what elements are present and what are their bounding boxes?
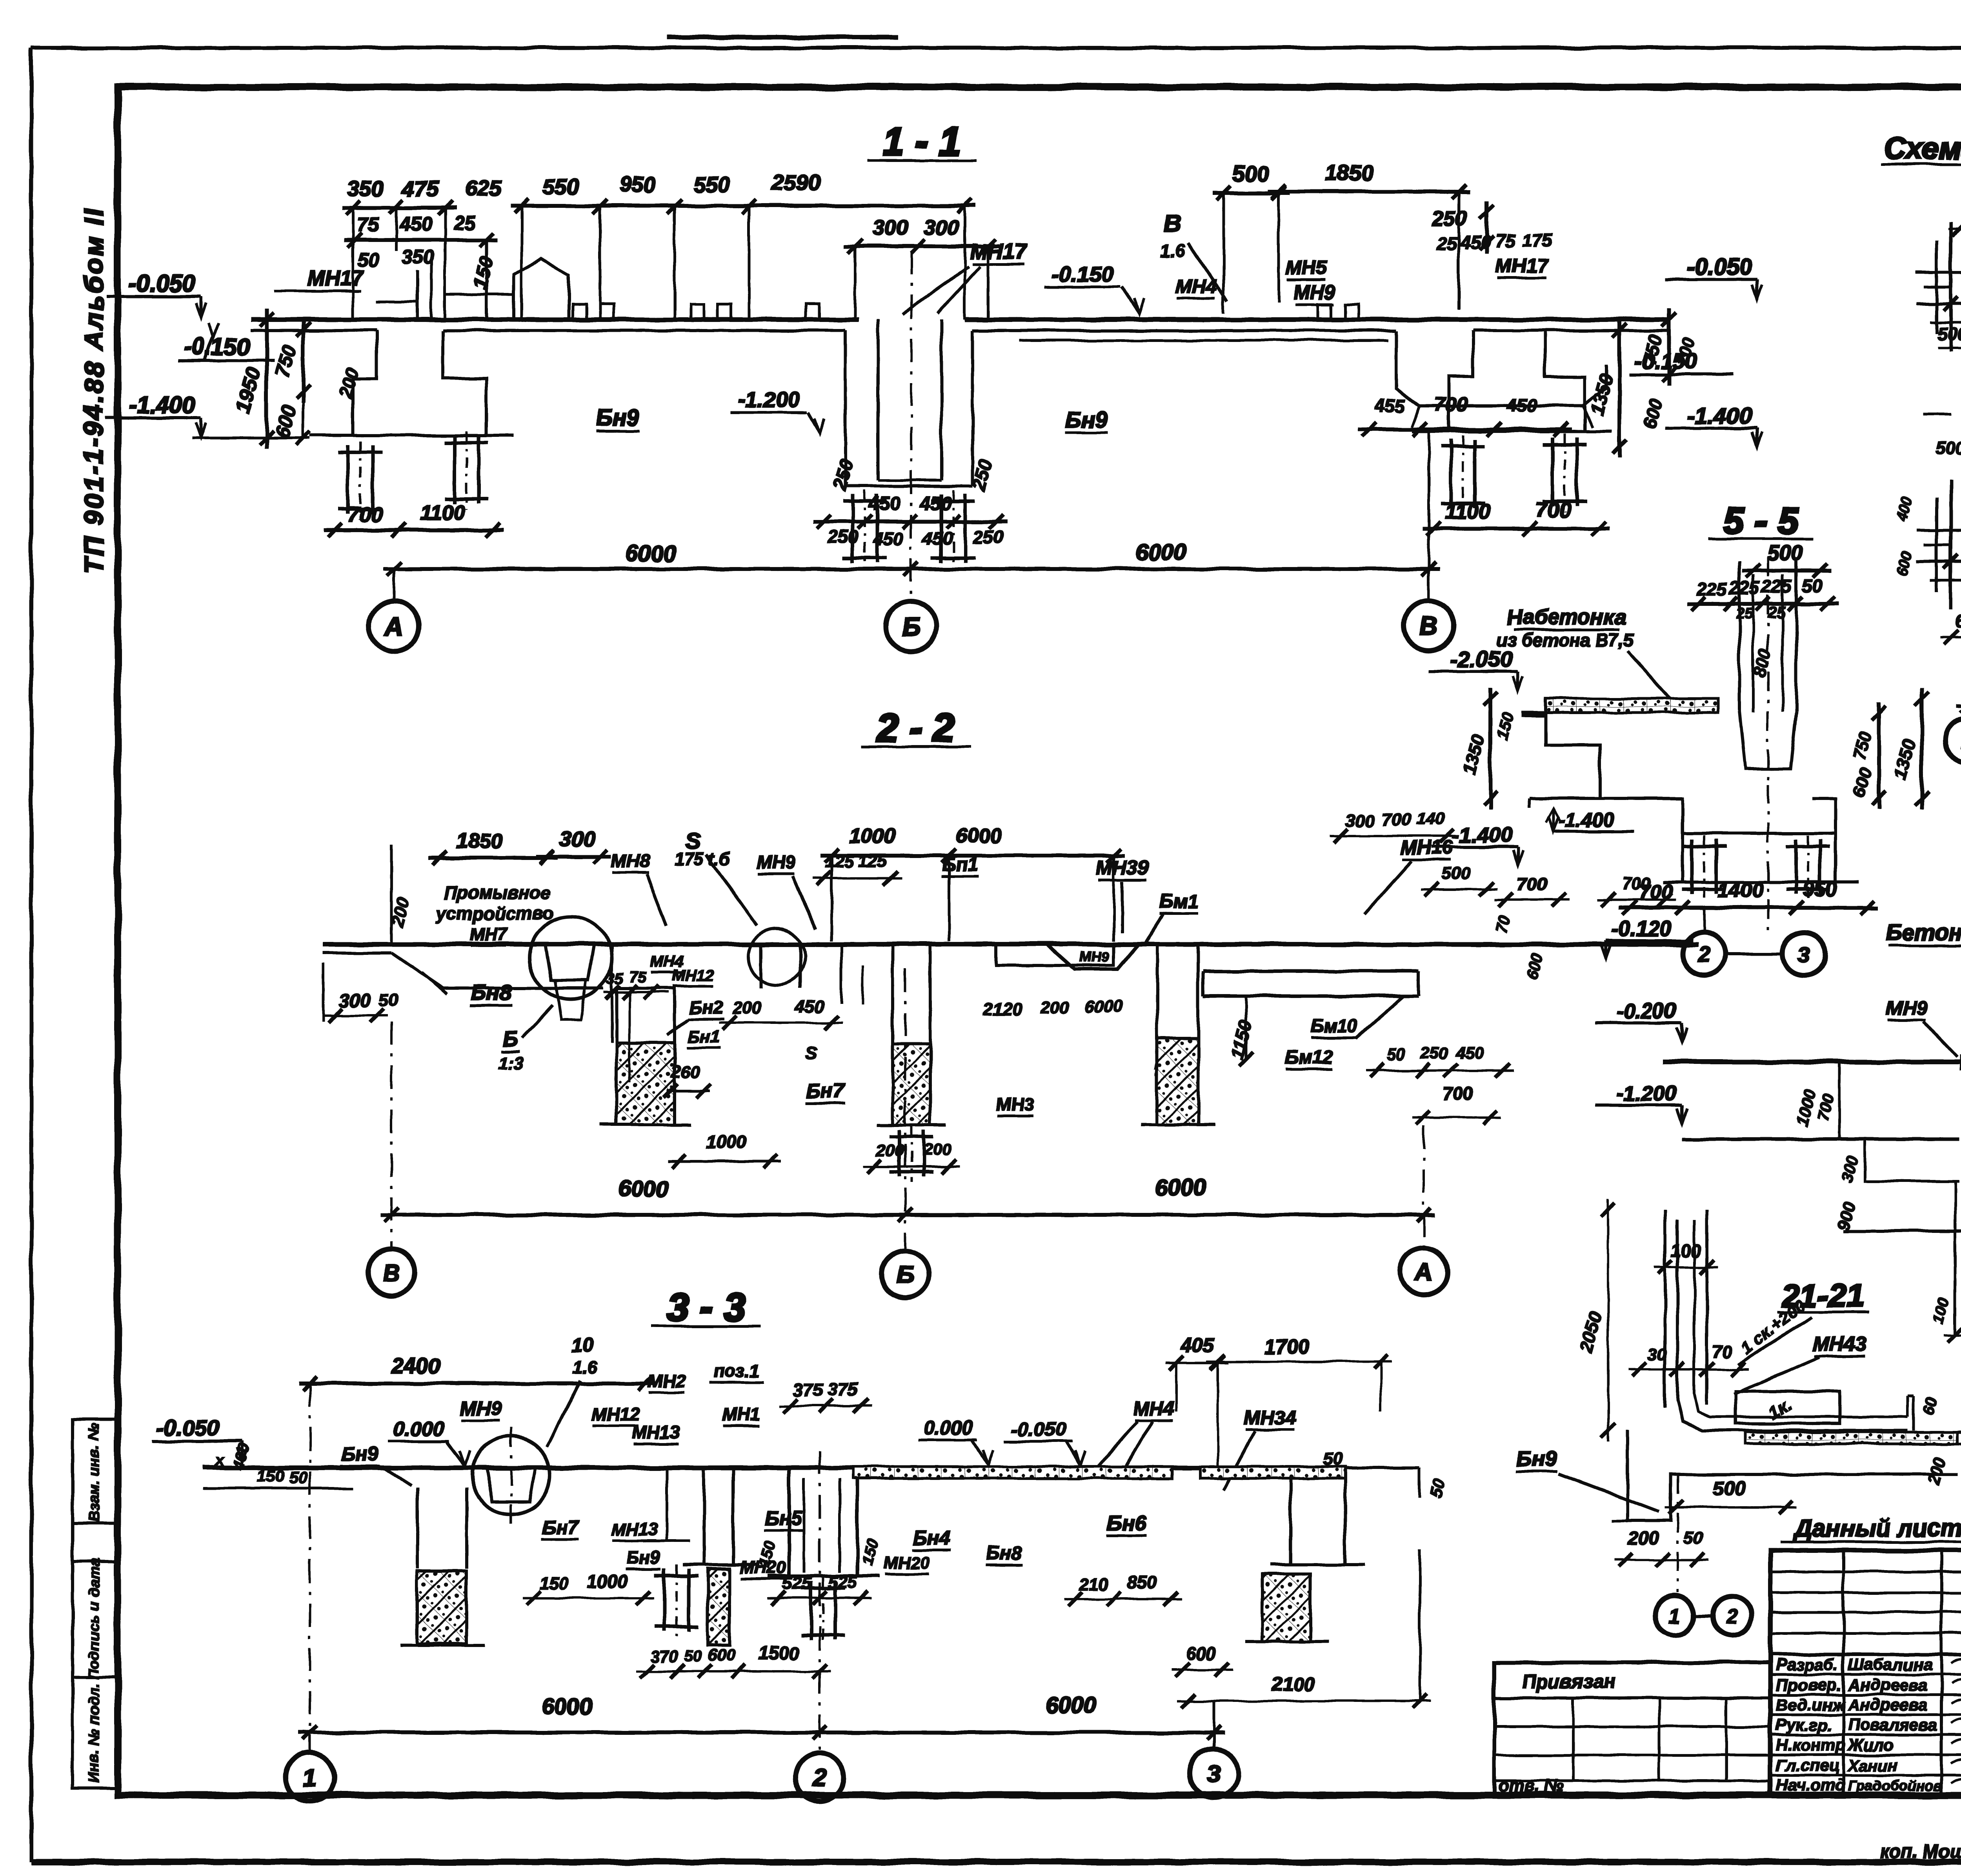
svg-text:6000: 6000 [541,1694,592,1720]
svg-text:В: В [383,1260,400,1287]
svg-text:В: В [1164,210,1181,236]
svg-text:-1.200: -1.200 [738,387,800,412]
svg-text:Бм1: Бм1 [1159,891,1198,913]
svg-text:450: 450 [873,529,904,549]
svg-text:2590: 2590 [771,170,821,195]
svg-text:1400: 1400 [1718,879,1763,902]
svg-text:Вед.инж: Вед.инж [1776,1696,1845,1714]
svg-text:-1.400: -1.400 [129,392,195,418]
svg-text:Рук.гр.: Рук.гр. [1776,1716,1832,1734]
svg-text:Взам. инв. №: Взам. инв. № [86,1423,102,1522]
svg-text:устройство: устройство [436,903,553,923]
svg-text:МН12: МН12 [592,1404,640,1424]
svg-text:Бн7: Бн7 [542,1516,579,1538]
svg-text:МН8: МН8 [611,851,651,872]
svg-text:1500: 1500 [759,1643,799,1663]
svg-text:МН5: МН5 [1285,257,1327,279]
svg-text:поз.1: поз.1 [713,1361,760,1381]
svg-text:МН13: МН13 [632,1422,680,1442]
svg-text:300: 300 [560,827,595,851]
svg-text:450: 450 [919,493,951,514]
svg-text:Градобойнов: Градобойнов [1848,1778,1942,1794]
svg-text:125: 125 [825,852,854,871]
svg-text:Бн2: Бн2 [689,997,723,1018]
svg-text:Бн8: Бн8 [471,980,512,1005]
svg-text:Бетон В7,5: Бетон В7,5 [1886,920,1961,945]
svg-text:МН4: МН4 [1133,1397,1175,1419]
svg-text:МН3: МН3 [996,1094,1034,1114]
svg-text:-0.050: -0.050 [1687,254,1752,280]
svg-text:225: 225 [1729,578,1760,598]
svg-text:-0.050: -0.050 [1011,1418,1066,1440]
svg-text:МН17: МН17 [1495,255,1549,277]
svg-text:-0.050: -0.050 [129,270,195,296]
svg-text:450: 450 [399,213,432,235]
svg-text:6000: 6000 [956,824,1001,847]
svg-text:25: 25 [1437,234,1458,254]
svg-text:475: 475 [402,176,439,201]
svg-text:140: 140 [1416,809,1445,828]
svg-text:Привязан: Привязан [1522,1671,1616,1692]
svg-text:150: 150 [539,1574,568,1593]
svg-text:А: А [1414,1259,1433,1286]
svg-text:S: S [686,829,701,854]
svg-text:200: 200 [1040,998,1070,1018]
svg-text:200: 200 [732,998,762,1018]
svg-text:125: 125 [858,851,887,871]
svg-text:Бн9: Бн9 [597,405,639,431]
svg-text:550: 550 [693,172,730,197]
svg-text:1000: 1000 [850,825,895,848]
svg-text:Бн4: Бн4 [913,1527,950,1549]
svg-text:550: 550 [542,174,579,199]
svg-text:Н.контр: Н.контр [1776,1736,1845,1754]
svg-text:600: 600 [1186,1643,1216,1663]
svg-text:300: 300 [339,991,371,1011]
svg-text:1: 1 [303,1764,317,1791]
svg-text:225: 225 [1697,579,1728,599]
svg-text:2400: 2400 [391,1353,440,1378]
svg-text:МН9: МН9 [1886,997,1928,1019]
svg-text:МН1: МН1 [722,1404,760,1424]
svg-text:Схема расположения сваиного: Схема расположения сваиного поля [1884,131,1961,165]
svg-text:50: 50 [1684,1528,1703,1547]
svg-text:Нач.отд: Нач.отд [1776,1776,1845,1794]
svg-text:250: 250 [973,527,1004,547]
svg-text:70: 70 [1712,1342,1732,1362]
svg-text:375: 375 [828,1379,858,1399]
svg-text:МН43: МН43 [1812,1333,1867,1356]
svg-text:6000: 6000 [1155,1175,1206,1200]
svg-text:-0.120: -0.120 [1612,917,1672,940]
svg-text:200: 200 [876,1141,904,1160]
svg-text:МН7: МН7 [469,924,508,944]
svg-text:200: 200 [923,1140,951,1158]
svg-text:850: 850 [1127,1572,1157,1593]
svg-text:Набетонка: Набетонка [1507,605,1626,629]
svg-text:Бн5: Бн5 [765,1507,802,1529]
svg-text:200: 200 [1628,1528,1659,1548]
svg-text:-0.150: -0.150 [184,334,250,360]
svg-text:ТП 901-1-94.88 Альбом II: ТП 901-1-94.88 Альбом II [79,206,109,574]
svg-text:А: А [384,612,404,641]
svg-text:700: 700 [1517,874,1547,894]
svg-text:2120: 2120 [984,1000,1022,1019]
svg-text:МН2: МН2 [648,1371,686,1391]
svg-text:25: 25 [453,212,476,234]
svg-text:коп. Мошкова: коп. Мошкова [1880,1841,1961,1862]
svg-text:75: 75 [629,969,646,986]
svg-text:1 - 1: 1 - 1 [882,120,961,164]
svg-text:-0.050: -0.050 [157,1415,219,1440]
svg-text:175: 175 [1523,230,1553,250]
svg-text:Бн9: Бн9 [626,1547,660,1568]
svg-text:3 - 3: 3 - 3 [667,1285,745,1329]
svg-text:35: 35 [607,971,624,987]
svg-text:-1.200: -1.200 [1616,1082,1676,1105]
svg-text:300: 300 [924,216,959,239]
svg-text:Б: Б [902,612,920,641]
svg-text:МН39: МН39 [1096,857,1149,879]
svg-text:-1.400: -1.400 [1452,823,1512,847]
svg-text:-2.050: -2.050 [1450,647,1512,671]
svg-text:Бн9: Бн9 [1516,1446,1557,1471]
svg-text:6000: 6000 [1045,1692,1096,1718]
svg-text:Поваляева: Поваляева [1848,1716,1937,1734]
svg-text:1100: 1100 [420,501,465,525]
svg-text:700: 700 [347,503,383,526]
svg-text:260: 260 [671,1062,700,1082]
svg-text:МН17: МН17 [970,240,1028,264]
svg-text:50: 50 [1387,1045,1406,1064]
svg-text:1100: 1100 [1445,500,1490,523]
svg-text:МН9: МН9 [1079,949,1109,965]
svg-text:0.000: 0.000 [924,1417,973,1439]
svg-text:из бетона В7,5: из бетона В7,5 [1496,630,1634,650]
svg-text:375: 375 [793,1380,824,1400]
svg-text:250: 250 [1431,207,1467,230]
svg-text:30: 30 [1648,1345,1667,1364]
svg-text:Бн7: Бн7 [806,1080,845,1103]
svg-text:Бн9: Бн9 [1065,407,1108,433]
svg-text:6000: 6000 [618,1176,668,1202]
svg-text:500: 500 [1713,1477,1746,1499]
svg-text:370: 370 [651,1647,679,1665]
svg-text:Гл.спец: Гл.спец [1776,1756,1839,1774]
svg-text:2: 2 [813,1764,826,1791]
svg-text:350: 350 [401,246,434,268]
svg-text:50: 50 [289,1468,307,1487]
svg-text:300: 300 [1346,811,1375,831]
svg-text:отв. №: отв. № [1498,1776,1564,1795]
svg-text:2: 2 [1726,1605,1738,1628]
svg-text:В: В [1419,611,1438,640]
svg-text:700: 700 [1382,810,1411,829]
svg-text:Б: Б [502,1027,517,1051]
svg-text:МН9: МН9 [1294,281,1335,303]
svg-text:3: 3 [1207,1760,1221,1787]
svg-text:Бн8: Бн8 [986,1542,1022,1564]
svg-text:1850: 1850 [456,829,503,853]
svg-text:1850: 1850 [1325,160,1374,185]
svg-text:450: 450 [1506,395,1537,416]
svg-text:МН13: МН13 [611,1520,657,1539]
svg-text:225: 225 [1761,576,1792,597]
svg-text:600: 600 [708,1645,735,1664]
svg-text:450: 450 [922,529,953,549]
svg-text:3: 3 [1798,942,1810,966]
svg-text:75: 75 [1495,231,1516,251]
svg-text:950: 950 [1803,878,1837,901]
svg-text:1000: 1000 [706,1132,747,1152]
svg-text:-1.400: -1.400 [1559,809,1614,831]
svg-text:50: 50 [379,991,398,1010]
svg-text:2: 2 [1697,942,1710,966]
svg-text:МН4: МН4 [650,953,683,970]
svg-text:S: S [805,1043,817,1063]
svg-text:600: 600 [1955,611,1961,631]
svg-text:405: 405 [1180,1334,1214,1356]
svg-text:МН17: МН17 [307,267,365,290]
svg-text:500: 500 [1935,438,1961,458]
svg-text:2100: 2100 [1271,1673,1315,1695]
svg-text:250: 250 [1421,1044,1448,1062]
svg-text:Промывное: Промывное [444,882,551,903]
svg-text:500: 500 [1233,162,1269,186]
svg-text:6000: 6000 [626,541,676,567]
svg-text:2 - 2: 2 - 2 [876,706,955,750]
svg-text:1:3: 1:3 [498,1054,523,1073]
svg-text:Бм12: Бм12 [1285,1047,1333,1068]
svg-text:МН9: МН9 [756,852,796,873]
svg-text:0.000: 0.000 [393,1418,444,1441]
svg-text:Бп1: Бп1 [942,854,978,875]
svg-text:Андреева: Андреева [1848,1676,1927,1694]
svg-text:1: 1 [1669,1605,1680,1628]
svg-text:Разраб.: Разраб. [1776,1655,1839,1674]
svg-text:Данный лист рассматривать с: Данный лист рассматривать совместно с л.… [1793,1515,1961,1542]
svg-text:10: 10 [571,1334,593,1356]
svg-text:450: 450 [1456,1043,1484,1062]
svg-text:450: 450 [868,493,900,514]
svg-text:700: 700 [1435,393,1468,415]
svg-text:Жило: Жило [1847,1736,1894,1754]
svg-text:Бн1: Бн1 [688,1027,720,1046]
svg-text:Провер.: Провер. [1776,1676,1841,1694]
svg-text:300: 300 [873,216,908,240]
svg-text:500: 500 [1937,324,1961,344]
svg-text:-0.200: -0.200 [1616,999,1676,1023]
svg-text:450: 450 [1460,232,1491,253]
svg-text:700: 700 [1443,1083,1473,1103]
svg-text:МН34: МН34 [1244,1407,1296,1429]
svg-text:1700: 1700 [1264,1336,1310,1358]
svg-text:МН9: МН9 [460,1397,501,1419]
svg-text:Бн6: Бн6 [1107,1511,1147,1535]
svg-text:1000: 1000 [587,1571,628,1591]
svg-text:350: 350 [347,176,383,201]
svg-text:6000: 6000 [1085,997,1123,1016]
svg-text:Подпись и дата: Подпись и дата [86,1558,102,1679]
svg-text:250: 250 [828,527,859,547]
svg-text:210: 210 [1079,1575,1109,1594]
svg-text:500: 500 [1441,864,1470,883]
svg-text:-0.150: -0.150 [1051,262,1114,286]
svg-text:1.6: 1.6 [573,1358,597,1377]
svg-text:МН4: МН4 [1175,276,1217,298]
svg-text:6000: 6000 [1135,540,1186,565]
svg-text:Бм10: Бм10 [1311,1016,1357,1036]
svg-text:Ханин: Ханин [1847,1756,1898,1774]
svg-text:150: 150 [257,1467,284,1485]
svg-text:625: 625 [465,176,502,201]
svg-text:Инв. № подл.: Инв. № подл. [86,1684,102,1783]
svg-text:455: 455 [1375,395,1406,416]
svg-text:МН20: МН20 [884,1553,930,1572]
svg-text:5 - 5: 5 - 5 [1724,500,1799,542]
svg-text:Бн9: Бн9 [342,1443,378,1465]
svg-text:50: 50 [1802,576,1822,596]
svg-text:700: 700 [1535,498,1571,522]
svg-text:450: 450 [795,997,824,1016]
svg-text:Андреева: Андреева [1848,1696,1927,1714]
svg-text:-1.400: -1.400 [1687,403,1752,429]
svg-text:Шабалина: Шабалина [1848,1655,1932,1674]
svg-text:1.6: 1.6 [1160,240,1185,261]
svg-text:100: 100 [1671,1240,1701,1261]
svg-text:175 t.б: 175 t.б [675,849,730,869]
svg-text:700: 700 [1622,874,1651,893]
svg-text:950: 950 [619,172,655,197]
svg-text:50: 50 [685,1647,702,1665]
svg-text:Б: Б [897,1262,914,1289]
